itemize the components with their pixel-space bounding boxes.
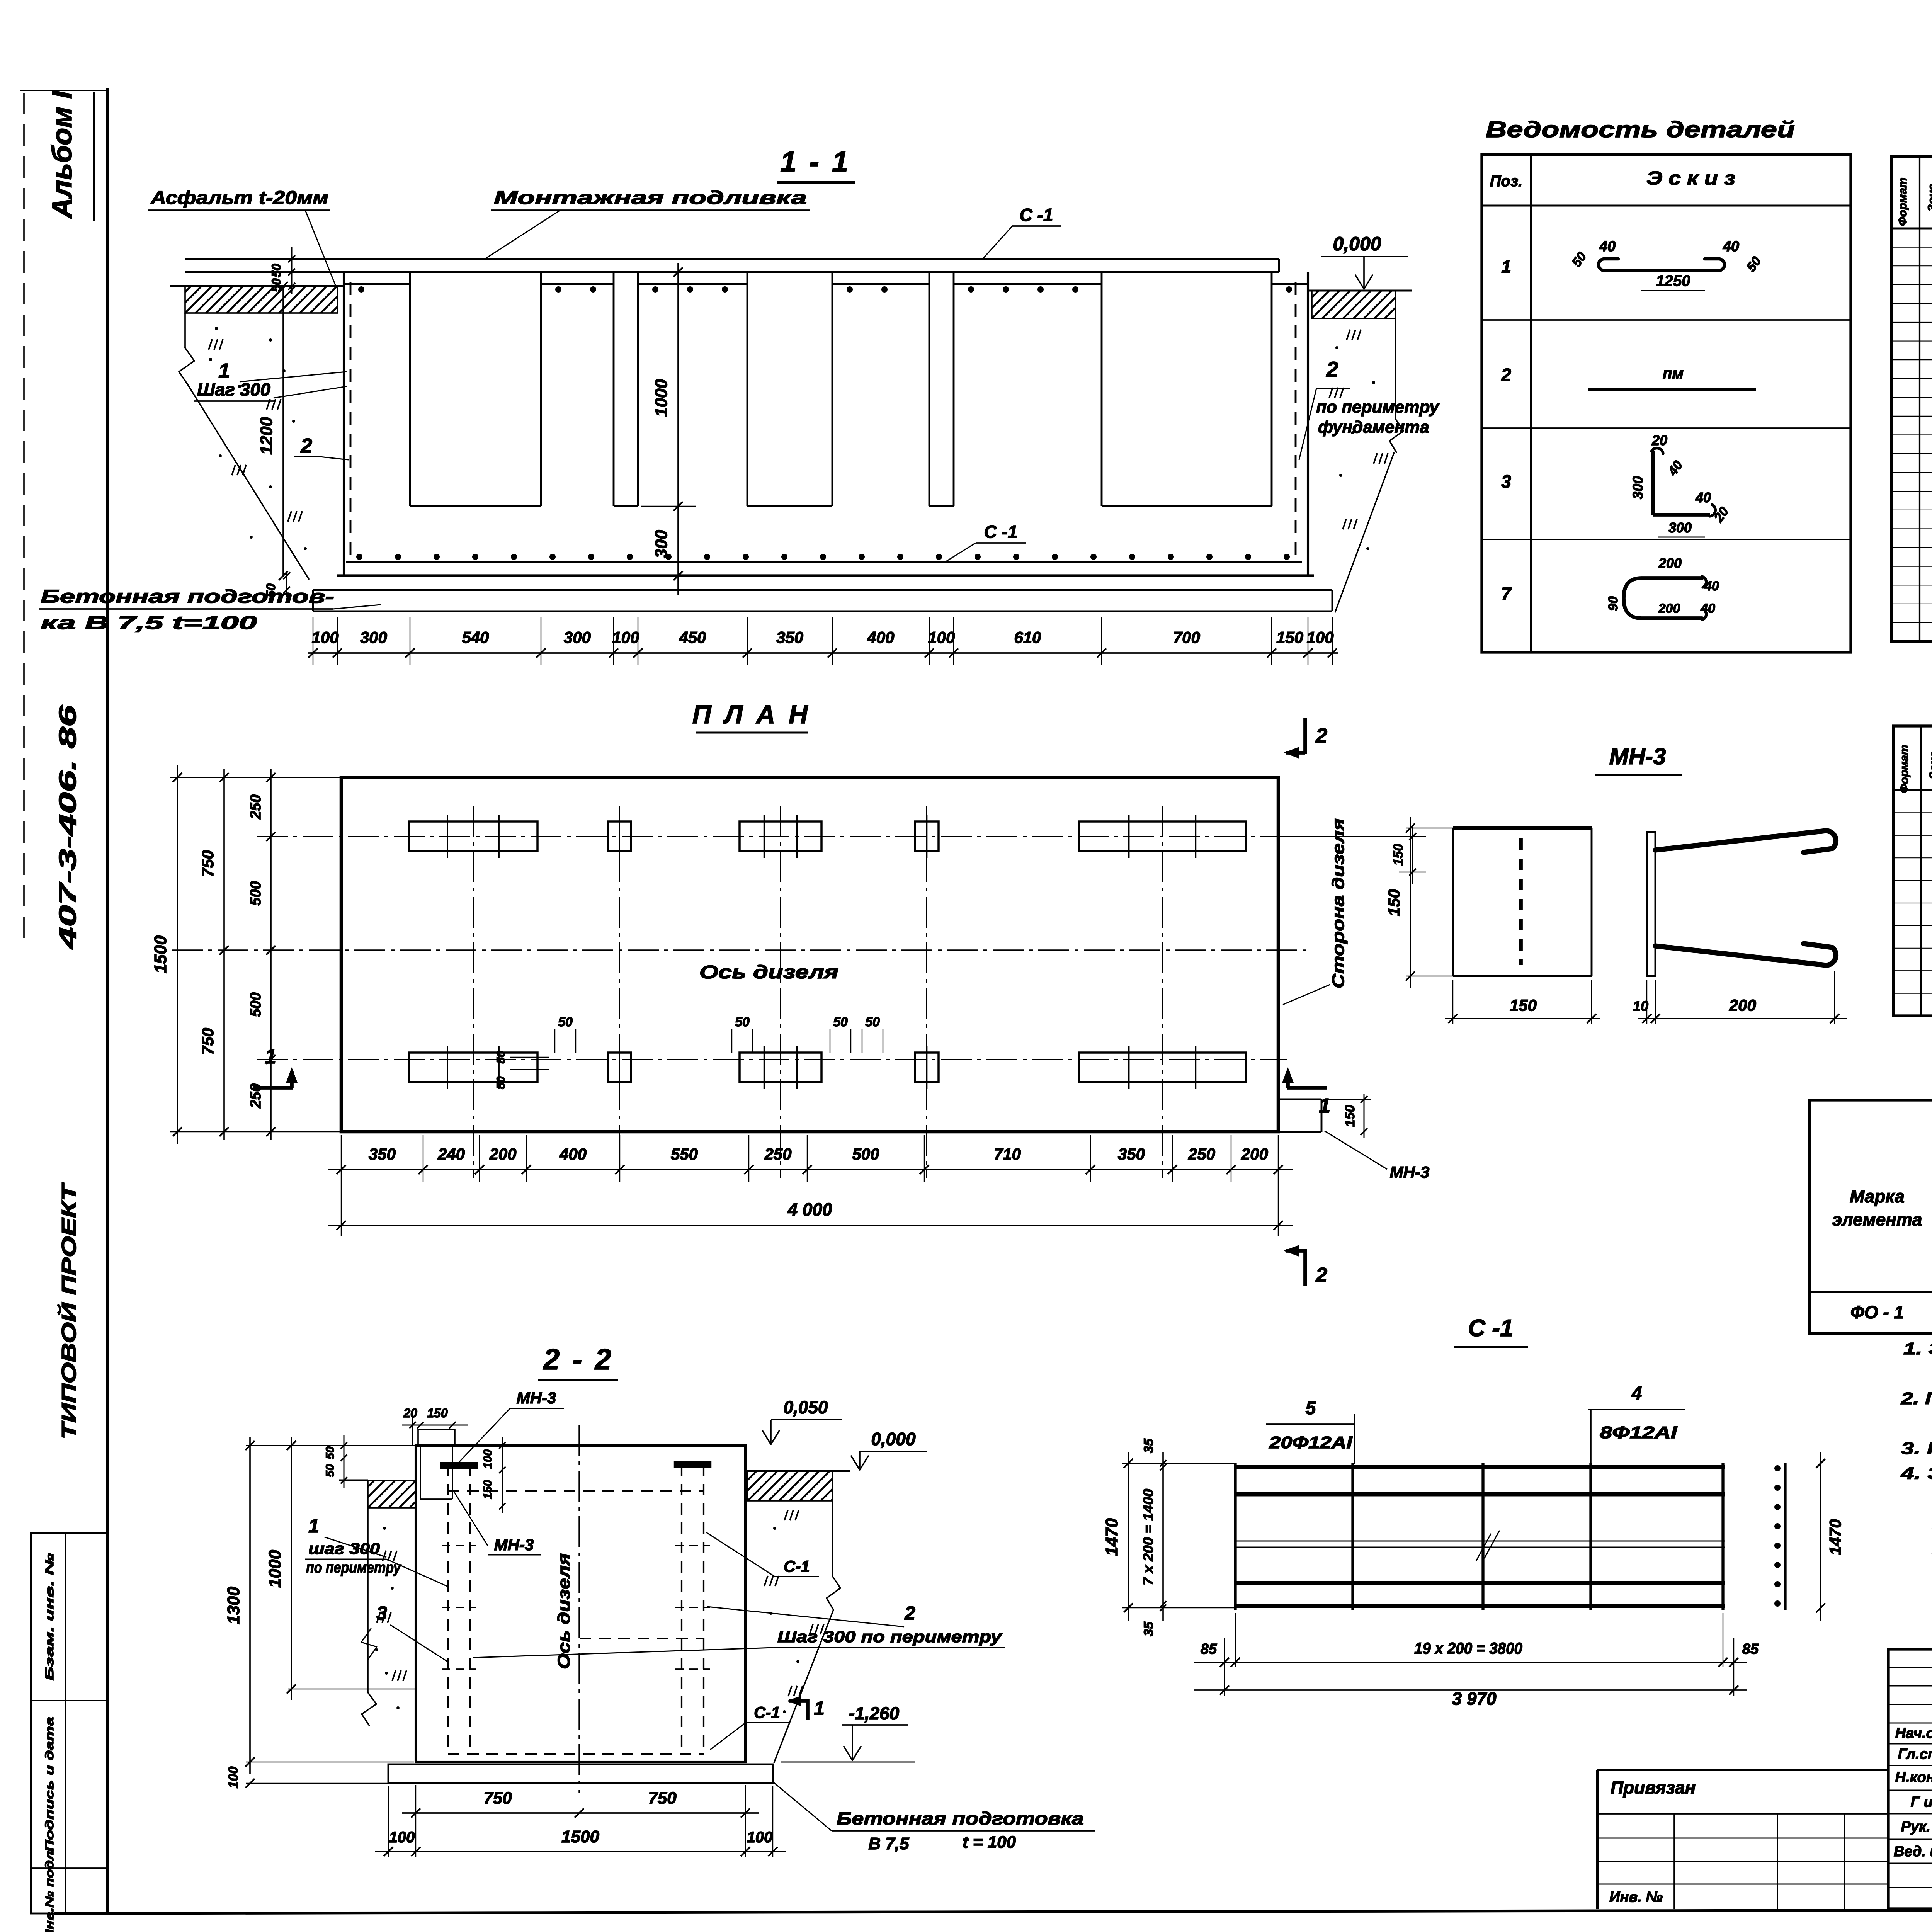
plan: left dimension 1500 (177, 765, 178, 1144)
section 1-1: anchor bolt pocket 5 (1101, 272, 1103, 506)
svg-text:200: 200 (1729, 996, 1756, 1014)
svg-text:250: 250 (764, 1145, 791, 1163)
svg-text:С -1: С -1 (1020, 205, 1053, 225)
plan: embedded anchor plate top row 5 (1079, 821, 1246, 851)
section 1-1: anchor bolt pocket 4 (929, 272, 930, 506)
MH-3 dim 150 left (1410, 817, 1411, 988)
section 2-2: right ground line and asphalt (745, 1470, 850, 1472)
svg-text:85: 85 (1201, 1641, 1217, 1657)
section 1-1: 1200 vertical dimension (282, 286, 284, 576)
svg-text:50: 50 (324, 1446, 337, 1459)
svg-text:С-1: С-1 (754, 1703, 780, 1721)
section 2-2: cage horizontal dashed chords (448, 1490, 704, 1492)
section 1-1: foundation right edge (1307, 272, 1309, 576)
svg-text:8Ф12АI: 8Ф12АI (1600, 1423, 1677, 1442)
svg-text:550: 550 (671, 1145, 698, 1163)
svg-text:Ось дизеля: Ось дизеля (554, 1553, 573, 1669)
C-1 side view bar with dots (1784, 1463, 1786, 1610)
svg-text:Асфальт t-20мм: Асфальт t-20мм (150, 188, 328, 208)
plan: embedded anchor plate top row 4 (915, 821, 939, 851)
svg-text:700: 700 (1173, 628, 1200, 646)
svg-text:2: 2 (1315, 1264, 1327, 1287)
C-1 mesh: longitudinal bars (1235, 1465, 1725, 1469)
C-1 bottom dim 85 / 19x200=3800 / 85 (1194, 1662, 1747, 1663)
section 2-2: bottom dim 100/1500/100 (375, 1851, 786, 1852)
svg-text:МН-3: МН-3 (494, 1536, 534, 1554)
svg-text:С-1: С-1 (784, 1557, 810, 1575)
svg-text:Бзам. инв. №: Бзам. инв. № (43, 1553, 56, 1680)
svg-text:1000: 1000 (652, 379, 671, 417)
svg-text:240: 240 (437, 1145, 465, 1163)
plan: embedded anchor plate top row 1 (409, 821, 537, 851)
steel table frame (1810, 1100, 1932, 1333)
spec table 1 row grid (1891, 247, 1932, 247)
section 1-1: 1000/300 vertical dimension (677, 263, 679, 595)
plan: left dimension 250/500/500/250 (270, 769, 272, 1140)
svg-text:Инв.№ подл.: Инв.№ подл. (43, 1847, 56, 1932)
parts list row 3 sketch: L-bar 300x300 (1651, 451, 1655, 515)
svg-text:Ведомость деталей: Ведомость деталей (1486, 117, 1795, 142)
svg-text:40: 40 (1665, 458, 1685, 479)
plan: right dimension 150 (1412, 827, 1413, 884)
svg-text:4. Заливка фундамента выра: 4. Заливка фундамента выравнивается по у… (1901, 1464, 1932, 1483)
svg-text:Нач.отд.: Нач.отд. (1895, 1725, 1932, 1742)
svg-text:200: 200 (489, 1145, 516, 1163)
section 1-1: foundation bottom line (337, 574, 1314, 577)
title block left rows (1888, 1667, 1932, 1668)
svg-text:0,050: 0,050 (783, 1397, 828, 1417)
plan: MH-3 corner notch (1278, 1099, 1321, 1100)
svg-text:элемента: элемента (1832, 1209, 1922, 1230)
svg-text:Г и п: Г и п (1911, 1794, 1932, 1810)
svg-text:407-3-406. 86: 407-3-406. 86 (54, 705, 81, 950)
svg-text:500: 500 (248, 881, 264, 905)
svg-text:85: 85 (1742, 1641, 1759, 1657)
svg-text:2 - 2: 2 - 2 (543, 1343, 614, 1376)
section 1-1: C-1 mesh left dashed bar (350, 282, 352, 561)
svg-text:450: 450 (679, 628, 706, 646)
svg-text:710: 710 (994, 1145, 1021, 1163)
plan: embedded anchor plate bottom row 2 (608, 1053, 631, 1082)
svg-text:40: 40 (1599, 238, 1616, 255)
svg-text:50: 50 (833, 1015, 848, 1029)
svg-text:2: 2 (300, 434, 312, 457)
MH-3 dim 150 bottom (1445, 1018, 1600, 1019)
svg-text:3. Подливка из бетона В 12: 3. Подливка из бетона В 12,5 толщиной 50… (1901, 1439, 1932, 1458)
svg-text:35: 35 (1141, 1621, 1156, 1636)
svg-text:50: 50 (1569, 249, 1590, 270)
section 1-1: floor/grout slab top lines (185, 258, 1279, 260)
section 1-1: anchor bolt pocket 1 (409, 272, 411, 506)
svg-text:400: 400 (559, 1145, 587, 1163)
C-1 mesh: transverse bars (1234, 1463, 1236, 1610)
C-1 side view dim 1470 (1820, 1452, 1821, 1621)
svg-text:4 000: 4 000 (787, 1199, 832, 1219)
svg-text:50: 50 (558, 1015, 573, 1029)
svg-text:ФО - 1: ФО - 1 (1850, 1302, 1904, 1322)
plan: section mark 2 bottom (1303, 1249, 1307, 1286)
section 1-1: bottom dimension line (308, 652, 1338, 654)
C-1 mesh: middle break lines (1235, 1540, 1725, 1541)
plan: diesel axis centerline with label (172, 949, 1312, 951)
plan: embedded anchor plate top row 2 (608, 821, 631, 851)
title block annex: Привязан block (1597, 1769, 1888, 1771)
plan: lower bolt row centerline (257, 1059, 1287, 1060)
svg-text:100: 100 (928, 628, 955, 646)
svg-text:300: 300 (564, 628, 591, 646)
plan: foundation outline (341, 777, 1278, 1132)
svg-text:400: 400 (867, 628, 894, 646)
plan: upper bolt row centerline (257, 836, 1287, 837)
section 1-1: concrete prep slab (313, 589, 1332, 591)
MH-3 profile dims 10 / 200 (1638, 1018, 1847, 1019)
svg-text:300: 300 (360, 628, 387, 646)
title block outer frame (1888, 1649, 1932, 1909)
plan: notch dimension 150 (1363, 1094, 1364, 1138)
svg-text:250: 250 (248, 794, 264, 819)
plan: bottom dimension line 2 (4000) (328, 1225, 1293, 1226)
section 1-1: right soil outline (1395, 318, 1396, 419)
svg-text:7: 7 (1501, 583, 1512, 604)
svg-text:Шаг 300: Шаг 300 (197, 379, 270, 400)
svg-text:100: 100 (311, 628, 338, 646)
plan: embedded anchor plate bottom row 1 (409, 1053, 537, 1082)
svg-text:Н.контр.: Н.контр. (1895, 1769, 1932, 1786)
section 1-1: mesh top chords with dots between pockets (344, 283, 410, 285)
svg-text:Альбом I: Альбом I (47, 90, 78, 219)
svg-text:шаг 300: шаг 300 (308, 1539, 380, 1558)
svg-text:1470: 1470 (1102, 1518, 1121, 1556)
section 1-1: 50/50 dims top left (291, 247, 292, 294)
svg-text:300: 300 (1630, 476, 1646, 499)
section 1-1: right asphalt hatched strip (1312, 291, 1396, 318)
section 2-2: left dim 100 (245, 1779, 255, 1788)
svg-text:1200: 1200 (257, 417, 276, 455)
svg-text:40: 40 (1695, 490, 1711, 505)
svg-text:1 - 1: 1 - 1 (780, 146, 850, 179)
svg-text:750: 750 (483, 1789, 512, 1808)
svg-text:40: 40 (1723, 238, 1739, 255)
svg-text:1: 1 (814, 1697, 825, 1719)
svg-text:5: 5 (1306, 1398, 1316, 1418)
svg-text:150: 150 (1510, 996, 1537, 1014)
plan: section mark 1 right (1287, 1086, 1327, 1090)
svg-text:1: 1 (218, 359, 230, 383)
svg-text:50: 50 (1744, 254, 1764, 274)
spec table 2 row grid (1893, 812, 1932, 813)
svg-text:750: 750 (648, 1789, 677, 1808)
svg-text:150: 150 (1276, 628, 1303, 646)
svg-text:Привязан: Привязан (1611, 1777, 1696, 1798)
C-1 bottom dim 3970 (1194, 1689, 1747, 1691)
plan: embedded anchor plate bottom row 3 (740, 1053, 821, 1082)
svg-text:200: 200 (1241, 1145, 1268, 1163)
svg-text:350: 350 (776, 628, 803, 646)
section 2-2: right soil edge and cut (832, 1501, 833, 1577)
section 2-2: top grout pad and bolt pocket (418, 1430, 455, 1446)
section 2-2: left dim 1300 (249, 1437, 251, 1774)
svg-text:Формат: Формат (1898, 745, 1911, 793)
section 1-1: left soil hatch marks III (209, 339, 223, 350)
underline of Альбом I (93, 92, 95, 221)
svg-text:150: 150 (1343, 1105, 1357, 1127)
svg-text:50: 50 (735, 1015, 750, 1029)
svg-text:по периметру: по периметру (1316, 398, 1440, 417)
svg-text:Подпись и дата: Подпись и дата (43, 1717, 56, 1852)
svg-text:100: 100 (747, 1829, 773, 1846)
svg-text:40: 40 (1700, 601, 1715, 616)
section 2-2: left soil edge (367, 1508, 369, 1692)
svg-text:2: 2 (1315, 724, 1327, 747)
svg-text:1500: 1500 (561, 1827, 599, 1846)
svg-text:Формат: Формат (1896, 177, 1909, 226)
margin stamp mini-table (31, 1533, 107, 1913)
svg-text:Шаг 300 по периметру: Шаг 300 по периметру (777, 1628, 1003, 1646)
section 1-1: anchor bolt pocket 2 (613, 272, 615, 506)
plan: embedded anchor plate top row 3 (740, 821, 821, 851)
C-1 left dim 1470 (1128, 1452, 1129, 1621)
svg-text:540: 540 (462, 628, 489, 646)
svg-text:610: 610 (1014, 628, 1041, 646)
section 2-2: C-1 cage left dashed bars (447, 1464, 449, 1754)
svg-text:150: 150 (481, 1480, 494, 1499)
section 2-2: bottom dim 750/750 (402, 1812, 759, 1814)
svg-text:2: 2 (1326, 357, 1338, 381)
svg-text:100: 100 (481, 1449, 494, 1469)
svg-text:С -1: С -1 (1468, 1315, 1513, 1342)
svg-text:3 970: 3 970 (1452, 1689, 1497, 1709)
svg-text:фундамента: фундамента (1318, 418, 1429, 437)
section 2-2: left 50/50 dims (343, 1435, 344, 1488)
svg-text:МН-3: МН-3 (1390, 1163, 1430, 1181)
sheet bottom border line (54, 1909, 1932, 1913)
section 2-2: pocket dims 20/150 (402, 1424, 468, 1425)
section 1-1: right ground line (1308, 290, 1412, 292)
svg-text:1: 1 (1319, 1094, 1330, 1117)
svg-text:100: 100 (612, 628, 639, 646)
svg-text:100: 100 (389, 1829, 415, 1846)
svg-text:1300: 1300 (224, 1587, 243, 1624)
svg-text:Марка: Марка (1850, 1186, 1905, 1206)
svg-text:С -1: С -1 (984, 522, 1018, 542)
plan: left dimension 750/750 (223, 769, 225, 1140)
svg-text:пм: пм (1663, 365, 1684, 382)
spec table 2 frame (1893, 726, 1932, 1016)
section 2-2: right soil dots and marks (773, 1527, 776, 1530)
svg-text:1470: 1470 (1826, 1519, 1844, 1555)
svg-text:В 7,5: В 7,5 (868, 1834, 909, 1853)
section 1-1: right soil dots and marks (1335, 346, 1338, 349)
svg-text:1500: 1500 (151, 935, 170, 973)
svg-text:П Л А Н: П Л А Н (692, 700, 811, 729)
MH-3 plate plan view (1453, 826, 1592, 830)
svg-text:50: 50 (495, 1051, 507, 1064)
svg-text:2: 2 (1501, 365, 1511, 385)
svg-text:1. Заливку болтов произвести: 1. Заливку болтов произвести раствором м… (1903, 1339, 1932, 1358)
section 1-1: left soil dots (215, 327, 218, 330)
plan: section mark 1 left (253, 1086, 293, 1090)
svg-text:0,000: 0,000 (871, 1429, 916, 1449)
parts list row 4 sketch: U-bar 200x90 (1624, 578, 1702, 618)
svg-text:40: 40 (1704, 579, 1719, 594)
svg-text:150: 150 (1385, 889, 1403, 916)
svg-text:4: 4 (1631, 1383, 1642, 1404)
svg-text:20: 20 (403, 1406, 417, 1420)
svg-text:7 x 200 = 1400: 7 x 200 = 1400 (1140, 1489, 1156, 1585)
section 2-2: left ground line and asphalt (339, 1480, 368, 1481)
svg-text:100: 100 (1306, 628, 1333, 646)
svg-text:19 x 200 = 3800: 19 x 200 = 3800 (1414, 1639, 1522, 1657)
svg-text:-1,260: -1,260 (849, 1703, 900, 1723)
MH-3 profile plate (1647, 832, 1655, 976)
svg-text:t = 100: t = 100 (963, 1833, 1016, 1852)
plan: section mark 2 top (1303, 718, 1307, 754)
section 1-1: foundation left edge (343, 272, 345, 576)
section 2-2: inner dims 100/150 (502, 1437, 503, 1513)
svg-text:350: 350 (369, 1145, 396, 1163)
svg-text:150: 150 (1391, 844, 1406, 866)
svg-text:Сторона дизеля: Сторона дизеля (1329, 818, 1348, 988)
svg-text:50: 50 (324, 1464, 337, 1477)
svg-text:200: 200 (1658, 555, 1682, 571)
svg-text:1: 1 (265, 1045, 276, 1068)
section 1-1: C-1 mesh right dashed bar (1295, 282, 1297, 561)
svg-text:Монтажная подливка: Монтажная подливка (494, 188, 807, 208)
steel table data row line (1810, 1291, 1932, 1293)
svg-text:50: 50 (865, 1015, 880, 1029)
svg-text:300: 300 (1668, 520, 1692, 536)
svg-text:35: 35 (1141, 1438, 1156, 1453)
section 2-2: diesel axis centerline (578, 1425, 580, 1793)
svg-text:750: 750 (199, 1028, 217, 1055)
svg-text:Зона: Зона (1926, 184, 1932, 212)
svg-text:ТИПОВОЙ ПРОЕКТ: ТИПОВОЙ ПРОЕКТ (57, 1182, 80, 1439)
sheet left border line (106, 88, 109, 1913)
svg-text:3: 3 (376, 1602, 387, 1624)
plan: embedded anchor plate bottom row 5 (1079, 1053, 1246, 1082)
section 2-2: concrete prep slab (388, 1764, 773, 1783)
C-1 left dim 35 / 7x200=1400 / 35 (1162, 1452, 1164, 1621)
section 1-1: left asphalt hatched strip (170, 285, 344, 287)
svg-text:Вед. инж.: Вед. инж. (1894, 1844, 1932, 1860)
MH-3 profile bottom anchor leg with hook (1655, 944, 1836, 965)
svg-text:20: 20 (1651, 432, 1667, 448)
plan: vertical centerlines through plates (473, 806, 474, 1178)
svg-text:Бетонная подготовка: Бетонная подготовка (837, 1808, 1084, 1828)
svg-text:1000: 1000 (265, 1550, 284, 1588)
svg-text:750: 750 (199, 850, 217, 877)
svg-text:50: 50 (269, 264, 283, 277)
svg-text:150: 150 (427, 1406, 448, 1420)
svg-text:Гл.спец.: Гл.спец. (1898, 1746, 1932, 1762)
section 1-1: left soil outline with break (184, 313, 186, 348)
svg-text:Рук. гр.: Рук. гр. (1901, 1819, 1932, 1835)
section 2-2: MH-3 plates at cage tops (440, 1463, 477, 1469)
parts list row 1 sketch: bar 1250 with hooks (1599, 259, 1725, 270)
section 2-2: left soil dots and marks (383, 1527, 386, 1530)
svg-text:50: 50 (269, 278, 283, 292)
parts list row 2 sketch: straight bar пм (1588, 388, 1756, 391)
top-left margin line (20, 90, 107, 91)
svg-text:по периметру: по периметру (306, 1559, 401, 1576)
svg-text:0,000: 0,000 (1333, 233, 1381, 255)
svg-text:МН-3: МН-3 (517, 1389, 556, 1407)
MH-3 profile top anchor leg with hook (1655, 831, 1836, 852)
MH-3 plate slot dashed (1519, 838, 1523, 965)
section 1-1: 50 dim bottom left (286, 572, 287, 597)
section 2-2: left dim 1000 (291, 1437, 292, 1700)
svg-text:350: 350 (1118, 1145, 1145, 1163)
section 1-1: anchor bolt pocket 3 (747, 272, 748, 506)
svg-text:Зона: Зона (1927, 751, 1932, 779)
section 2-2: foundation outline (416, 1446, 745, 1762)
svg-text:Ось дизеля: Ось дизеля (699, 962, 838, 983)
svg-text:250: 250 (1188, 1145, 1215, 1163)
svg-text:1250: 1250 (1656, 272, 1690, 289)
svg-text:50: 50 (495, 1076, 507, 1089)
svg-text:500: 500 (248, 992, 264, 1017)
svg-text:ка В 7,5 t=100: ка В 7,5 t=100 (41, 613, 257, 633)
left margin dash-dot fold line (23, 93, 25, 947)
section 1-1: C-1 mesh bottom chord with rebar dots (346, 561, 1302, 563)
parts list table frame (1482, 155, 1851, 652)
plan: embedded anchor plate bottom row 4 (915, 1053, 939, 1082)
svg-text:20Ф12АI: 20Ф12АI (1269, 1433, 1352, 1452)
svg-text:10: 10 (1633, 998, 1648, 1014)
svg-text:500: 500 (852, 1145, 879, 1163)
svg-text:Бетонная подготов-: Бетонная подготов- (41, 587, 334, 607)
svg-text:Э с к и з: Э с к и з (1646, 167, 1735, 189)
svg-text:90: 90 (1606, 596, 1621, 611)
svg-text:100: 100 (226, 1767, 241, 1789)
section 2-2: C-1 cage right dashed bars (681, 1464, 682, 1754)
section 2-2: section mark 1 bottom right (806, 1699, 810, 1720)
svg-text:МН-3: МН-3 (1609, 743, 1666, 769)
svg-text:1: 1 (308, 1515, 319, 1537)
spec table 1 frame (1891, 156, 1932, 641)
plan: bottom dimension line 1 (328, 1169, 1293, 1170)
svg-text:2: 2 (904, 1602, 915, 1624)
svg-text:Поз.: Поз. (1490, 173, 1523, 190)
svg-text:1: 1 (1501, 257, 1511, 277)
svg-text:Инв. №: Инв. № (1609, 1889, 1663, 1905)
svg-text:3: 3 (1501, 471, 1511, 492)
svg-text:2. Поверхность фундамента, со: 2. Поверхность фундамента, соприкасающую… (1901, 1389, 1932, 1408)
svg-text:300: 300 (652, 530, 671, 558)
svg-text:200: 200 (1658, 601, 1680, 616)
